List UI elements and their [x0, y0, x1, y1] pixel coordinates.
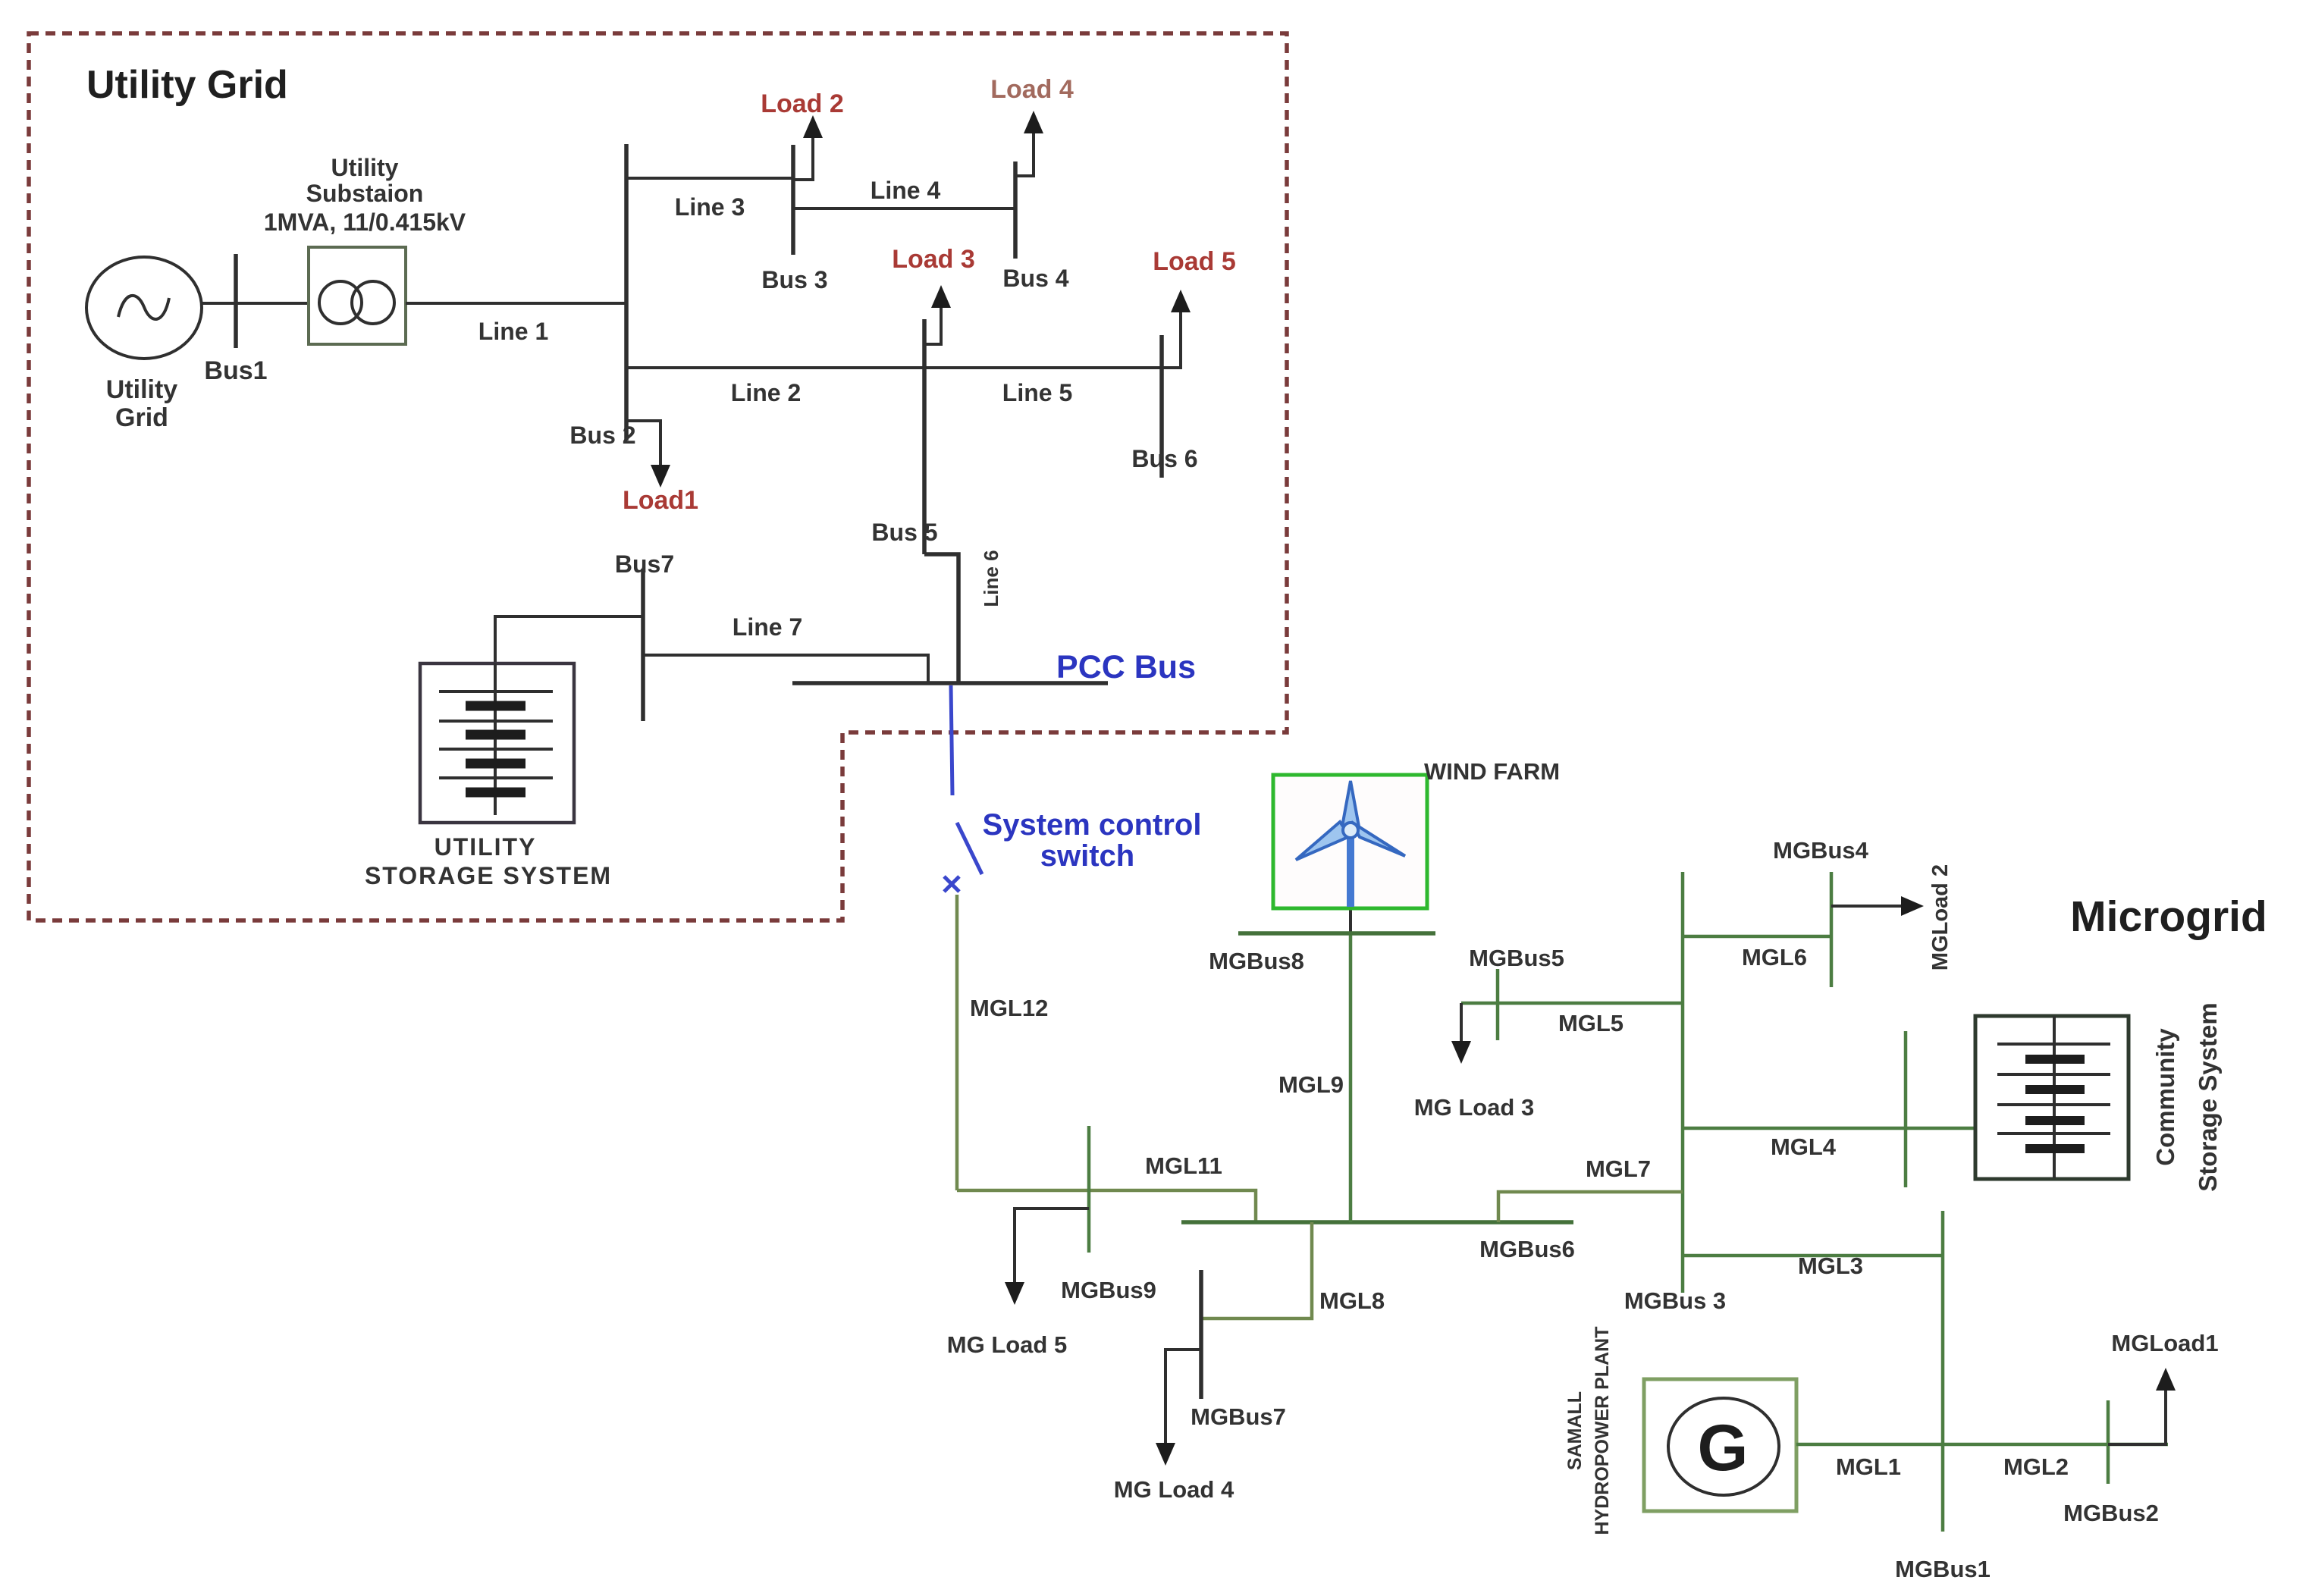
wind turbine icon	[1296, 781, 1405, 907]
svg-text:Line 5: Line 5	[1002, 379, 1072, 406]
wire MGL2	[1943, 1443, 2168, 1447]
bus Bus7	[641, 569, 645, 721]
svg-text:MGBus9: MGBus9	[1061, 1277, 1156, 1303]
wire MGL4	[1683, 1127, 1975, 1130]
bus Bus 5	[922, 319, 927, 554]
bus MGBus1	[1941, 1211, 1945, 1532]
svg-text:SAMALL: SAMALL	[1564, 1391, 1586, 1470]
svg-text:Load 4: Load 4	[990, 75, 1074, 104]
svg-text:Utility Grid: Utility Grid	[86, 63, 288, 107]
generator G symbol	[1668, 1398, 1779, 1495]
load arrow MGLoad1	[2108, 1368, 2176, 1444]
svg-text:Storage System: Storage System	[2194, 1002, 2222, 1191]
bus PCC Bus	[792, 681, 1108, 685]
svg-text:MGL2: MGL2	[2003, 1453, 2069, 1480]
wire MGL5	[1461, 1002, 1683, 1005]
svg-text:Line 3: Line 3	[675, 193, 745, 221]
bus MGBus7	[1199, 1270, 1203, 1399]
bus Bus 3	[791, 145, 795, 255]
wire MGL11	[957, 1190, 1256, 1222]
svg-text:Substaion: Substaion	[306, 180, 424, 207]
svg-text:MGL4: MGL4	[1771, 1134, 1837, 1160]
wire Bus7 to utility storage	[495, 616, 643, 663]
svg-text:MGL7: MGL7	[1586, 1155, 1651, 1182]
wire source to Bus1	[202, 302, 309, 305]
svg-text:MGL5: MGL5	[1558, 1010, 1624, 1036]
bus MGBus9	[1087, 1126, 1091, 1253]
svg-text:Bus 2: Bus 2	[569, 422, 635, 449]
label Utility Grid (source)	[106, 375, 178, 432]
svg-text:MGLoad 2: MGLoad 2	[1928, 864, 1953, 970]
wire MGL8	[1201, 1222, 1312, 1319]
svg-text:MGLoad1: MGLoad1	[2111, 1330, 2218, 1356]
load arrow MG Load 5	[1005, 1209, 1089, 1305]
load arrow Load 3	[924, 285, 951, 344]
svg-text:PCC Bus: PCC Bus	[1056, 649, 1196, 685]
svg-text:Community: Community	[2151, 1028, 2179, 1166]
svg-text:MGL1: MGL1	[1836, 1453, 1901, 1480]
bus community storage bus bar	[1904, 1031, 1908, 1187]
load arrow MGLoad 2	[1831, 896, 1924, 916]
svg-text:MGBus1: MGBus1	[1895, 1556, 1991, 1582]
bus Bus1	[234, 254, 238, 348]
wire MGL6	[1683, 935, 1831, 939]
svg-text:Bus1: Bus1	[204, 356, 267, 385]
svg-text:Microgrid: Microgrid	[2070, 892, 2267, 941]
svg-text:MGBus6: MGBus6	[1479, 1236, 1575, 1262]
load arrow MG Load 4	[1156, 1350, 1201, 1466]
svg-text:Bus 4: Bus 4	[1002, 265, 1068, 292]
svg-text:MGBus8: MGBus8	[1209, 948, 1304, 974]
battery community storage cells	[1997, 1016, 2110, 1178]
load arrow Load 4	[1015, 111, 1043, 176]
wire MGL12	[955, 895, 959, 1190]
svg-text:MG Load 4: MG Load 4	[1114, 1476, 1234, 1503]
bus MGBus6	[1181, 1220, 1573, 1224]
svg-text:switch: switch	[1040, 839, 1134, 873]
svg-text:UTILITY: UTILITY	[435, 833, 537, 861]
bus Bus 6	[1159, 335, 1164, 478]
svg-text:MGBus5: MGBus5	[1469, 945, 1564, 971]
svg-text:WIND FARM: WIND FARM	[1424, 758, 1560, 785]
wire Line 4	[793, 207, 1015, 210]
svg-text:MGL9: MGL9	[1278, 1071, 1344, 1098]
svg-text:MGL11: MGL11	[1145, 1152, 1222, 1179]
community storage system box	[1975, 1016, 2129, 1179]
bus MGBus5	[1496, 969, 1500, 1040]
svg-text:Bus 6: Bus 6	[1131, 445, 1197, 472]
wire MGL7	[1498, 1192, 1683, 1222]
wire MGL1	[1796, 1443, 1943, 1447]
transformer Utility Substation	[309, 247, 406, 344]
wire Line 3	[626, 177, 793, 180]
wind farm box	[1273, 775, 1427, 908]
svg-text:Load 3: Load 3	[892, 245, 975, 274]
wire MGL3	[1683, 1254, 1943, 1258]
AC source: utility grid generator	[86, 257, 202, 359]
bus MGBus 3 trunk	[1681, 872, 1685, 1293]
svg-text:System control: System control	[983, 808, 1202, 842]
svg-text:1MVA, 11/0.415kV: 1MVA, 11/0.415kV	[264, 209, 466, 236]
label Utility Substaion 1MVA, 11/0.415kV	[264, 154, 466, 236]
label System control switch	[983, 808, 1202, 873]
svg-text:Bus 3: Bus 3	[761, 266, 827, 293]
load arrow Load 5	[1171, 290, 1191, 368]
svg-text:Grid: Grid	[115, 403, 168, 432]
svg-text:Load1: Load1	[623, 486, 698, 515]
svg-text:MG Load 3: MG Load 3	[1414, 1094, 1534, 1121]
svg-text:Bus7: Bus7	[615, 550, 674, 578]
bus Bus 2	[624, 144, 629, 441]
svg-text:MGBus2: MGBus2	[2063, 1500, 2159, 1526]
svg-text:Line 6: Line 6	[980, 550, 1002, 607]
wire Line 6 from Bus 5 to PCC	[924, 554, 958, 683]
wire Line 2 / Line 5	[626, 366, 1182, 369]
svg-text:MGBus 3: MGBus 3	[1624, 1287, 1726, 1314]
load arrow Load 2	[793, 115, 823, 180]
switch System control switch (blue)	[944, 685, 982, 892]
wire Line 7	[643, 655, 928, 683]
load arrow MG Load 3	[1451, 1003, 1471, 1064]
wire MGL9	[1349, 908, 1352, 1222]
battery utility storage cells	[439, 663, 553, 815]
svg-text:Utility: Utility	[331, 154, 399, 181]
bus MGBus2	[2107, 1400, 2110, 1484]
svg-text:Line 4: Line 4	[871, 177, 941, 204]
bus MGBus8	[1238, 931, 1435, 936]
svg-text:Utility: Utility	[106, 375, 178, 404]
svg-text:Line 1: Line 1	[478, 318, 548, 345]
svg-text:Bus 5: Bus 5	[871, 519, 937, 546]
load arrow Load1	[626, 421, 670, 488]
svg-text:G: G	[1698, 1412, 1749, 1485]
svg-text:Line 7: Line 7	[733, 613, 802, 641]
svg-text:Load 5: Load 5	[1153, 247, 1236, 276]
svg-text:MG Load 5: MG Load 5	[947, 1331, 1067, 1358]
svg-text:STORAGE SYSTEM: STORAGE SYSTEM	[365, 862, 612, 889]
bus MGBus4	[1830, 872, 1834, 987]
label UTILITY STORAGE SYSTEM	[365, 833, 612, 889]
svg-text:MGL8: MGL8	[1319, 1287, 1385, 1314]
utility storage system box	[420, 663, 574, 823]
utility grid dashed boundary	[29, 33, 1287, 920]
svg-text:MGL12: MGL12	[970, 995, 1048, 1021]
bus Bus 4	[1013, 161, 1018, 259]
small hydropower plant box	[1644, 1379, 1796, 1511]
svg-text:Line 2: Line 2	[731, 379, 801, 406]
svg-text:MGL6: MGL6	[1742, 944, 1807, 970]
label Community Storage System (rotated)	[2151, 1002, 2222, 1191]
svg-text:MGBus7: MGBus7	[1191, 1403, 1286, 1430]
svg-text:MGL3: MGL3	[1798, 1253, 1863, 1279]
svg-text:HYDROPOWER PLANT: HYDROPOWER PLANT	[1592, 1327, 1613, 1535]
svg-text:Load 2: Load 2	[761, 89, 844, 118]
wire Line 1	[406, 302, 626, 305]
svg-text:MGBus4: MGBus4	[1773, 837, 1869, 864]
label SAMALL HYDROPOWER PLANT (rotated)	[1564, 1327, 1613, 1535]
